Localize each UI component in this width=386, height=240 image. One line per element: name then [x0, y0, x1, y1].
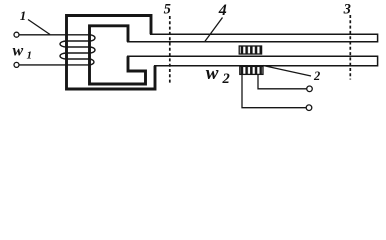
svg-text:5: 5 — [164, 2, 171, 18]
label 2 leader — [263, 66, 311, 77]
svg-text:3: 3 — [343, 2, 351, 18]
terminal (output top) — [307, 86, 313, 92]
svg-text:4: 4 — [218, 2, 227, 19]
label 1 leader — [28, 20, 50, 35]
wire (w2 lead right to upper terminal) — [258, 75, 307, 89]
coil w2 upper cross-section — [239, 46, 261, 54]
svg-text:w: w — [206, 63, 219, 84]
svg-text:2: 2 — [222, 71, 230, 87]
coil w2 lower cross-section — [240, 66, 263, 74]
cavity outer wall — [67, 16, 156, 90]
label 4 leader — [205, 18, 223, 42]
svg-text:2: 2 — [313, 69, 320, 83]
svg-text:1: 1 — [20, 8, 27, 23]
coil w1 (with input wires) — [19, 35, 95, 65]
cavity inner wall — [90, 26, 146, 84]
line conductor 4 bottom strip — [127, 56, 378, 66]
dashed section line 5 — [169, 16, 171, 83]
svg-text:w: w — [13, 43, 24, 60]
dashed section line 3 — [349, 15, 351, 80]
line conductor 4 top strip — [127, 34, 378, 42]
terminal (input top) — [14, 32, 19, 37]
terminal (output bottom) — [306, 105, 312, 111]
terminal (input bottom) — [14, 62, 19, 67]
wire (w2 lead left to bottom terminal) — [242, 75, 306, 108]
svg-text:1: 1 — [27, 50, 33, 62]
